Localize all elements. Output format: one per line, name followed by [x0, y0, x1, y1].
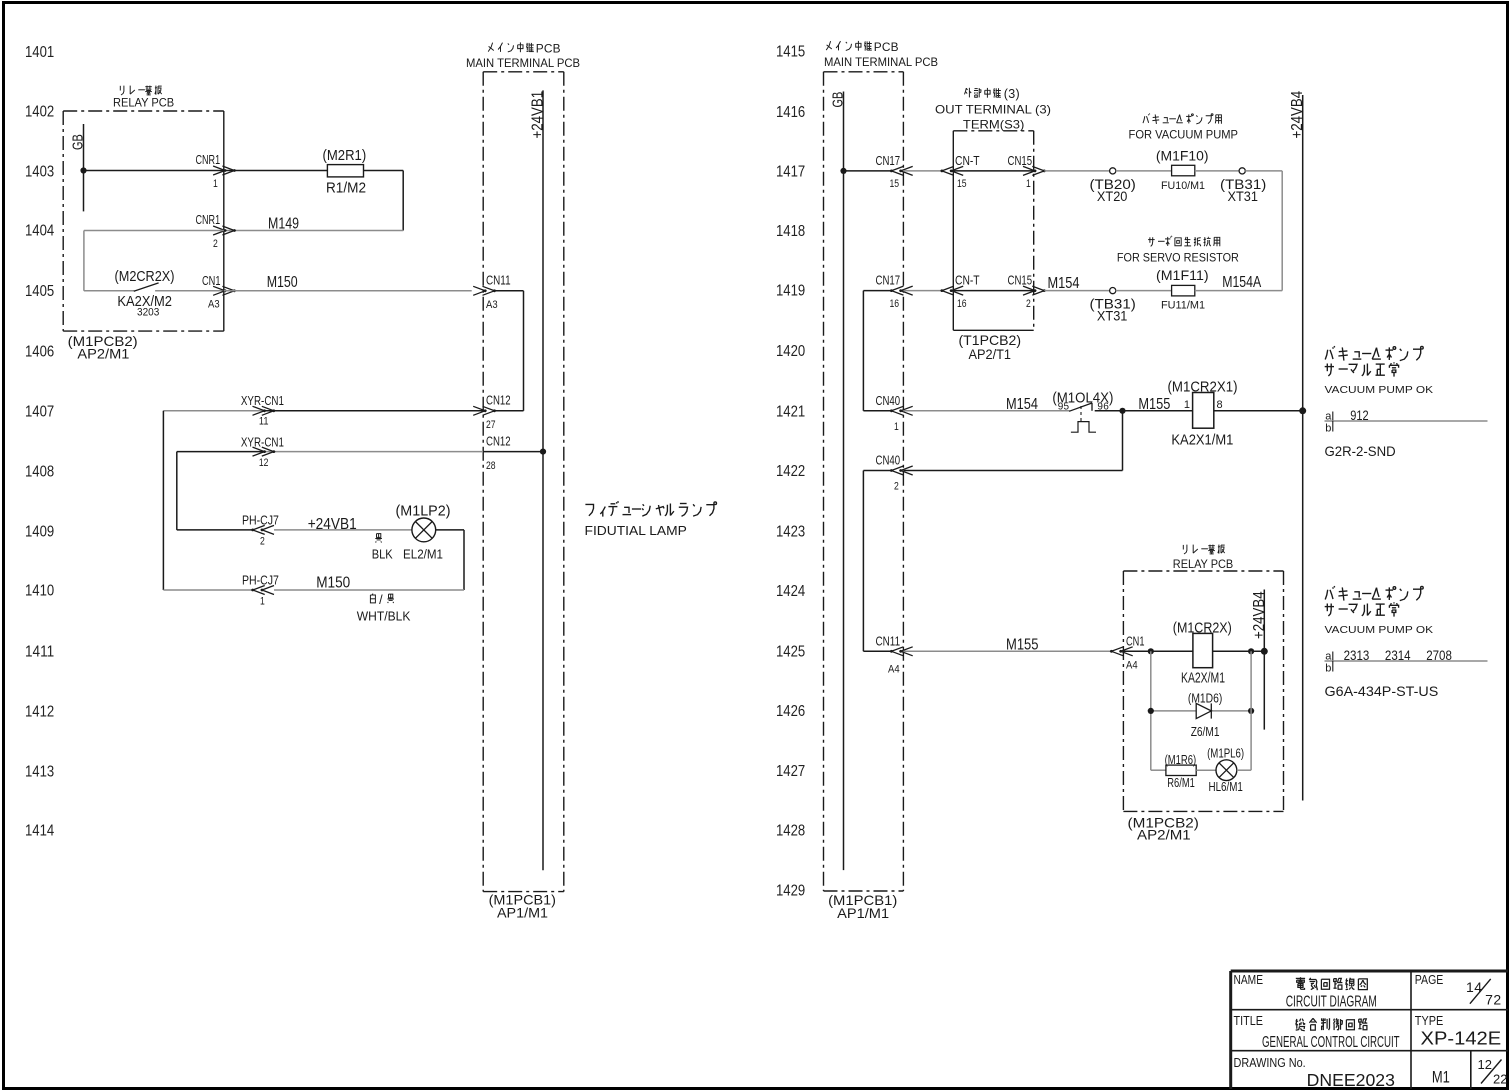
svg-text:/: / [379, 593, 383, 607]
svg-text:PCB: PCB [536, 42, 561, 56]
svg-text:16: 16 [890, 298, 900, 310]
svg-text:HL6/M1: HL6/M1 [1209, 780, 1243, 794]
svg-text:FOR SERVO RESISTOR: FOR SERVO RESISTOR [1117, 251, 1239, 265]
svg-text:EL2/M1: EL2/M1 [403, 547, 443, 562]
svg-text:M149: M149 [268, 216, 299, 233]
svg-text:12: 12 [1478, 1057, 1493, 1072]
svg-text:OUT TERMINAL (3): OUT TERMINAL (3) [935, 103, 1051, 117]
svg-text:M150: M150 [267, 274, 298, 291]
svg-text:FOR VACUUM PUMP: FOR VACUUM PUMP [1129, 128, 1239, 142]
svg-text:G6A-434P-ST-US: G6A-434P-ST-US [1325, 683, 1439, 699]
svg-text:1428: 1428 [776, 823, 805, 840]
svg-text:CN17: CN17 [876, 153, 901, 168]
svg-text:RELAY PCB: RELAY PCB [113, 96, 174, 110]
svg-text:95: 95 [1058, 401, 1070, 412]
svg-text:1412: 1412 [25, 704, 54, 721]
svg-text:1420: 1420 [776, 343, 806, 360]
svg-text:(M1CR2X1): (M1CR2X1) [1168, 379, 1238, 396]
svg-text:1424: 1424 [776, 583, 806, 600]
svg-text:TYPE: TYPE [1415, 1013, 1444, 1028]
svg-text:72: 72 [1485, 992, 1502, 1008]
svg-text:28: 28 [486, 460, 496, 472]
svg-text:1419: 1419 [776, 283, 805, 300]
svg-text:1: 1 [1026, 178, 1031, 190]
svg-text:TERM(S3): TERM(S3) [963, 118, 1025, 132]
svg-text:CN40: CN40 [876, 453, 901, 468]
svg-text:MAIN TERMINAL PCB: MAIN TERMINAL PCB [824, 55, 938, 69]
svg-text:A3: A3 [486, 299, 498, 311]
svg-text:VACUUM PUMP OK: VACUUM PUMP OK [1325, 384, 1434, 396]
svg-text:1426: 1426 [776, 703, 805, 720]
svg-text:KA2X1/M1: KA2X1/M1 [1171, 431, 1233, 448]
svg-text:CN11: CN11 [876, 633, 901, 648]
svg-text:AP2/M1: AP2/M1 [77, 346, 129, 362]
svg-text:M1: M1 [1432, 1068, 1450, 1087]
svg-text:PCB: PCB [874, 40, 899, 54]
svg-text:A4: A4 [1126, 660, 1138, 672]
svg-text:(3): (3) [1004, 87, 1020, 101]
svg-text:FU10/M1: FU10/M1 [1161, 180, 1205, 192]
svg-text:27: 27 [486, 419, 496, 431]
svg-text:FIDUTIAL LAMP: FIDUTIAL LAMP [585, 523, 687, 538]
svg-text:(M1F10): (M1F10) [1156, 149, 1209, 164]
svg-text:XT20: XT20 [1097, 189, 1128, 204]
svg-text:1425: 1425 [776, 644, 805, 661]
svg-text:CNR1: CNR1 [196, 152, 221, 167]
svg-text:CNR1: CNR1 [196, 212, 221, 227]
svg-text:CN-T: CN-T [955, 273, 980, 288]
svg-text:R1/M2: R1/M2 [326, 181, 366, 197]
svg-text:XT31: XT31 [1228, 189, 1259, 204]
svg-text:A4: A4 [888, 664, 900, 676]
svg-text:(M1D6): (M1D6) [1188, 691, 1222, 705]
svg-text:PH-CJ7: PH-CJ7 [242, 573, 279, 588]
svg-text:CN40: CN40 [876, 393, 901, 408]
svg-text:1409: 1409 [25, 524, 54, 541]
svg-text:+24VB4: +24VB4 [1251, 591, 1268, 639]
svg-text:CN1: CN1 [1126, 633, 1144, 648]
svg-text:1422: 1422 [776, 463, 805, 480]
svg-text:1: 1 [1184, 399, 1190, 411]
svg-text:1: 1 [213, 178, 218, 190]
svg-text:16: 16 [957, 298, 967, 310]
svg-text:1413: 1413 [25, 764, 54, 781]
svg-text:1417: 1417 [776, 164, 805, 181]
svg-text:1403: 1403 [25, 164, 54, 181]
svg-text:1: 1 [260, 596, 265, 608]
svg-text:(M1F11): (M1F11) [1156, 268, 1209, 283]
svg-text:RELAY PCB: RELAY PCB [1173, 557, 1233, 571]
svg-text:1423: 1423 [776, 524, 805, 541]
svg-text:DRAWING No.: DRAWING No. [1234, 1055, 1306, 1070]
svg-text:AP2/M1: AP2/M1 [1137, 827, 1191, 843]
svg-text:96: 96 [1097, 401, 1109, 412]
svg-text:1429: 1429 [776, 883, 805, 900]
svg-text:1410: 1410 [25, 583, 55, 600]
svg-text:CN12: CN12 [486, 393, 511, 408]
svg-text:1406: 1406 [25, 344, 54, 361]
svg-text:15: 15 [890, 178, 900, 190]
svg-text:XYR-CN1: XYR-CN1 [241, 435, 284, 450]
svg-text:NAME: NAME [1234, 972, 1264, 987]
svg-text:M154: M154 [1006, 396, 1038, 413]
svg-text:FU11/M1: FU11/M1 [1161, 300, 1205, 312]
svg-text:M155: M155 [1138, 396, 1170, 413]
svg-text:TITLE: TITLE [1234, 1013, 1264, 1028]
svg-text:WHT/BLK: WHT/BLK [357, 609, 411, 624]
svg-text:GB: GB [71, 134, 87, 150]
svg-text:1407: 1407 [25, 404, 54, 421]
svg-text:A3: A3 [208, 299, 220, 311]
svg-text:1405: 1405 [25, 283, 54, 300]
svg-text:CN12: CN12 [486, 433, 511, 448]
svg-text:CN15: CN15 [1008, 273, 1033, 288]
svg-text:Z6/M1: Z6/M1 [1191, 725, 1220, 739]
svg-text:8: 8 [1217, 399, 1223, 411]
svg-text:1421: 1421 [776, 404, 805, 421]
svg-text:1411: 1411 [25, 644, 54, 661]
svg-text:1404: 1404 [25, 223, 55, 240]
svg-text:CN11: CN11 [486, 273, 511, 288]
svg-text:(M1LP2): (M1LP2) [396, 504, 451, 520]
svg-text:15: 15 [957, 178, 967, 190]
svg-text:(M2R1): (M2R1) [323, 148, 367, 164]
svg-text:(M1PL6): (M1PL6) [1207, 747, 1244, 761]
svg-text:CIRCUIT DIAGRAM: CIRCUIT DIAGRAM [1286, 994, 1377, 1011]
svg-text:GENERAL CONTROL CIRCUIT: GENERAL CONTROL CIRCUIT [1262, 1034, 1400, 1051]
svg-text:1402: 1402 [25, 104, 54, 121]
svg-text:2: 2 [894, 481, 899, 493]
svg-text:CN1: CN1 [202, 273, 220, 288]
svg-text:CN17: CN17 [876, 273, 901, 288]
svg-text:1418: 1418 [776, 223, 805, 240]
svg-text:M150: M150 [316, 574, 350, 591]
svg-text:b: b [1325, 663, 1331, 675]
svg-text:BLK: BLK [372, 547, 393, 562]
svg-text:b: b [1325, 423, 1331, 435]
svg-text:M154: M154 [1048, 275, 1080, 292]
svg-text:AP1/M1: AP1/M1 [837, 905, 889, 921]
svg-text:PAGE: PAGE [1415, 972, 1444, 987]
svg-text:MAIN TERMINAL PCB: MAIN TERMINAL PCB [466, 56, 580, 70]
svg-text:AP1/M1: AP1/M1 [497, 905, 548, 921]
svg-text:G2R-2-SND: G2R-2-SND [1325, 443, 1396, 459]
svg-text:M155: M155 [1006, 637, 1039, 654]
svg-text:DNEE2023: DNEE2023 [1307, 1070, 1395, 1090]
svg-text:R6/M1: R6/M1 [1167, 776, 1195, 790]
svg-text:CN15: CN15 [1008, 153, 1033, 168]
svg-text:+24VB4: +24VB4 [1289, 91, 1306, 139]
svg-text:22: 22 [1493, 1072, 1508, 1087]
svg-text:2: 2 [213, 238, 218, 250]
svg-text:M154A: M154A [1222, 274, 1262, 291]
svg-text:12: 12 [259, 457, 269, 469]
svg-text:CN-T: CN-T [955, 153, 980, 168]
svg-text:1414: 1414 [25, 823, 55, 840]
svg-text:2: 2 [260, 536, 265, 548]
svg-text:11: 11 [259, 416, 269, 428]
svg-text:AP2/T1: AP2/T1 [969, 346, 1012, 362]
svg-text:1: 1 [894, 421, 899, 433]
svg-text:1427: 1427 [776, 763, 805, 780]
svg-text:XP-142E: XP-142E [1421, 1029, 1502, 1049]
svg-text:1401: 1401 [25, 44, 54, 61]
svg-text:KA2X/M1: KA2X/M1 [1181, 670, 1225, 687]
svg-text:VACUUM PUMP OK: VACUUM PUMP OK [1325, 624, 1434, 636]
svg-text:(M1R6): (M1R6) [1165, 753, 1197, 767]
svg-text:+24VB1: +24VB1 [530, 91, 547, 139]
svg-text:1416: 1416 [776, 104, 805, 121]
svg-text:1408: 1408 [25, 464, 54, 481]
svg-text:GB: GB [831, 92, 847, 108]
svg-text:1415: 1415 [776, 44, 805, 61]
svg-text:PH-CJ7: PH-CJ7 [242, 513, 279, 528]
svg-text:XYR-CN1: XYR-CN1 [241, 393, 284, 408]
svg-text:3203: 3203 [137, 307, 159, 319]
svg-text:XT31: XT31 [1097, 309, 1128, 324]
svg-text:2: 2 [1026, 298, 1031, 310]
svg-text:(M2CR2X): (M2CR2X) [115, 269, 175, 285]
